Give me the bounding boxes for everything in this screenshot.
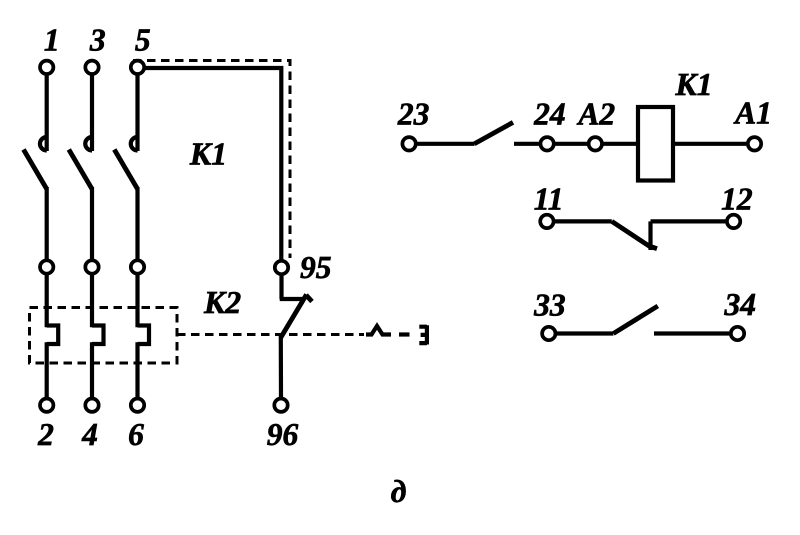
contact K1.2 blade	[69, 150, 92, 190]
contact K1.1 fixed hook	[40, 137, 47, 151]
contact K2 11-12 stop	[648, 221, 652, 250]
contact K1 23-24 blade	[474, 122, 513, 143]
wire	[45, 75, 49, 151]
svg-text:33: 33	[533, 288, 566, 323]
svg-text:A1: A1	[733, 96, 772, 131]
wire	[654, 331, 729, 335]
node terminal	[85, 260, 98, 273]
contact K1 33-34 blade	[613, 306, 657, 334]
wire	[651, 219, 726, 223]
wire	[557, 331, 613, 335]
terminal 11	[540, 215, 553, 228]
svg-text:К2: К2	[203, 285, 241, 320]
wire	[90, 273, 94, 327]
wire	[417, 142, 474, 146]
connector bracket	[419, 325, 427, 344]
terminal 24	[540, 137, 553, 150]
svg-text:11: 11	[534, 182, 564, 217]
terminal 12	[727, 215, 740, 228]
node terminal	[40, 260, 53, 273]
heater K2.3	[138, 326, 150, 345]
thermal relay K2 enclosure (dashed)	[30, 308, 178, 364]
terminal 4	[85, 399, 98, 412]
wire	[279, 337, 283, 399]
svg-text:5: 5	[135, 23, 151, 58]
svg-text:12: 12	[721, 182, 753, 217]
svg-text:д: д	[391, 474, 407, 509]
coil K1	[638, 107, 673, 181]
wire	[45, 342, 49, 399]
wire	[135, 273, 139, 327]
svg-text:23: 23	[397, 96, 430, 131]
svg-text:К1: К1	[674, 67, 712, 102]
terminal 6	[131, 399, 144, 412]
contact K1.3 fixed hook	[131, 137, 138, 151]
terminal 95	[275, 261, 288, 274]
K2 trip linkage (dashed)	[177, 333, 364, 336]
svg-text:95: 95	[300, 250, 332, 285]
contact K1.2 fixed hook	[85, 137, 92, 151]
svg-text:1: 1	[44, 23, 60, 58]
terminal A1	[748, 137, 761, 150]
svg-text:34: 34	[724, 287, 757, 322]
terminal 23	[402, 137, 415, 150]
wire	[45, 273, 49, 327]
contact K1.3 blade	[114, 150, 137, 190]
wire	[514, 142, 539, 146]
svg-text:96: 96	[267, 417, 299, 452]
wire	[90, 342, 94, 399]
contact K1.1 blade	[24, 150, 47, 190]
heater K2.2	[92, 326, 104, 345]
terminal A2	[589, 137, 602, 150]
wire	[555, 142, 587, 146]
contact K2 11-12 blade	[612, 221, 657, 248]
trip indicator	[366, 326, 391, 335]
wire	[675, 142, 746, 146]
svg-text:2: 2	[37, 417, 54, 452]
svg-text:6: 6	[128, 417, 144, 452]
heater K2.1	[47, 326, 59, 345]
svg-text:A2: A2	[576, 97, 615, 132]
wire	[135, 342, 139, 399]
contact K2 95-96 blade	[281, 295, 313, 339]
mechanical linkage (dashed)	[133, 61, 290, 259]
terminal 3	[85, 61, 98, 74]
terminal 34	[731, 327, 744, 340]
wire	[279, 274, 283, 299]
svg-text:К1: К1	[189, 137, 227, 172]
wire dash	[399, 332, 410, 336]
wire	[90, 187, 94, 261]
terminal 1	[40, 61, 53, 74]
wire	[135, 75, 139, 151]
node terminal	[131, 260, 144, 273]
svg-text:3: 3	[89, 23, 106, 58]
contact K2 95-96 fixed	[280, 297, 304, 301]
terminal 96	[274, 399, 287, 412]
wire	[555, 219, 612, 223]
wire	[604, 142, 639, 146]
terminal 2	[40, 399, 53, 412]
svg-text:4: 4	[81, 417, 98, 452]
terminal 33	[542, 327, 555, 340]
svg-text:24: 24	[533, 97, 566, 132]
wire	[135, 187, 139, 261]
terminal 5	[131, 61, 144, 74]
wire	[90, 75, 94, 151]
wire	[45, 187, 49, 261]
wire from terminal 5 to 95	[145, 68, 281, 260]
